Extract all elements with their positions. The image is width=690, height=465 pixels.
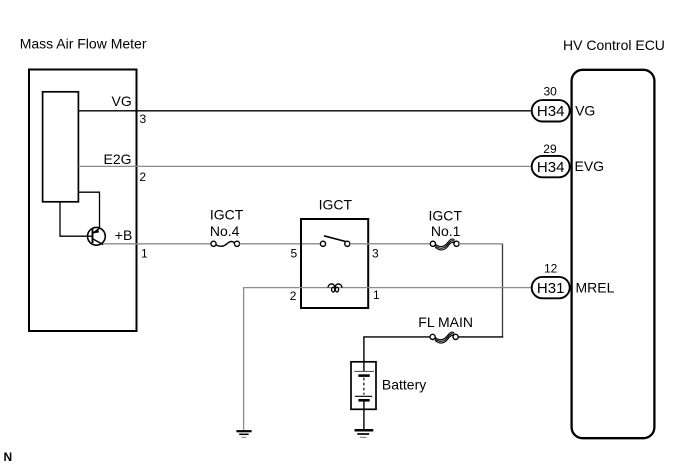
wire sensor bottom to transistor base (60, 202, 93, 236)
connector H31 pin 12 (532, 277, 570, 298)
svg-text:3: 3 (372, 247, 379, 261)
HV Control ECU box (572, 70, 655, 438)
svg-text:VG: VG (575, 102, 595, 118)
relay contact (switch) (320, 236, 350, 247)
wire vertical feed (corner to FL MAIN) (502, 244, 504, 337)
wire battery positive to FL MAIN (364, 337, 430, 372)
battery B1 (354, 371, 374, 400)
svg-text:No.1: No.1 (431, 223, 461, 239)
Mass Air Flow Meter box (29, 70, 137, 332)
svg-text:H34: H34 (537, 159, 565, 176)
connector H34 pin 29 (532, 156, 570, 177)
svg-text:IGCT: IGCT (319, 197, 353, 213)
svg-text:+B: +B (115, 227, 133, 243)
wire sensor output to transistor collector (79, 192, 100, 228)
ground (battery) (355, 430, 374, 437)
wire fuse IGCT No.4 to relay pin 5 (240, 243, 321, 245)
svg-text:FL MAIN: FL MAIN (418, 314, 473, 330)
wire relay coil line (MREL, pin 1 to connector H31-12) (301, 287, 531, 289)
svg-text:12: 12 (544, 262, 558, 276)
fusible link IGCT No.1 (430, 239, 459, 250)
svg-text:Battery: Battery (382, 377, 426, 393)
wire battery negative to ground (363, 402, 365, 430)
wire VG (pin 3 to connector H34-30) (79, 110, 531, 112)
svg-text:VG: VG (112, 93, 132, 109)
relay coil (328, 284, 342, 292)
ground (relay coil) (236, 431, 251, 437)
wire relay coil pin 2 to ground (244, 288, 301, 430)
svg-text:No.4: No.4 (210, 223, 240, 239)
svg-text:1: 1 (373, 288, 380, 302)
fuse IGCT No.4 (211, 241, 240, 246)
svg-text:3: 3 (140, 112, 147, 126)
svg-text:H31: H31 (537, 280, 565, 297)
svg-text:MREL: MREL (576, 280, 615, 296)
wire relay pin 3 to fuse IGCT No.1 (350, 243, 430, 245)
svg-text:E2G: E2G (104, 151, 132, 167)
svg-text:N: N (4, 450, 13, 464)
wire E2G (pin 2 to connector H34-29) (79, 165, 531, 167)
svg-text:2: 2 (290, 289, 297, 303)
svg-text:HV Control ECU: HV Control ECU (563, 37, 665, 53)
svg-text:30: 30 (544, 85, 558, 99)
relay IGCT box (301, 219, 368, 308)
svg-text:IGCT: IGCT (429, 207, 463, 223)
battery box (351, 362, 376, 410)
svg-text:IGCT: IGCT (210, 206, 244, 222)
svg-text:5: 5 (291, 247, 298, 261)
svg-text:Mass Air Flow Meter: Mass Air Flow Meter (20, 35, 147, 51)
connector H34 pin 30 (532, 100, 570, 121)
svg-text:EVG: EVG (575, 158, 605, 174)
svg-text:29: 29 (543, 142, 557, 156)
wire +B from transistor to fuse IGCT No.4 (103, 243, 211, 245)
sensor element rectangle (43, 92, 79, 202)
svg-text:1: 1 (141, 246, 148, 260)
svg-text:2: 2 (139, 170, 146, 184)
wire FL MAIN to vertical feed (458, 336, 503, 338)
fusible link FL MAIN (430, 332, 458, 343)
wire fuse IGCT No.1 to corner node (459, 243, 502, 245)
svg-text:H34: H34 (537, 103, 565, 120)
transistor Q1 (88, 227, 106, 245)
